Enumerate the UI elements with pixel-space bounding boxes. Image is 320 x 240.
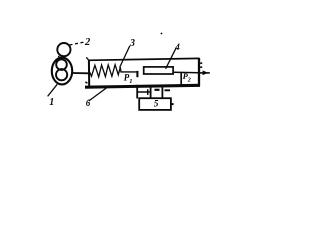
- svg-text:3: 3: [129, 38, 135, 49]
- output arrow line: [200, 72, 210, 74]
- spring 3 zigzag: [89, 65, 121, 77]
- battery wire left: [136, 85, 138, 99]
- cylinder 6 right wall: [198, 58, 200, 86]
- cylinder 6 left wall: [88, 60, 90, 87]
- battery box right tick: [171, 103, 173, 105]
- leader line to label 6: [89, 87, 109, 101]
- right jog dash: [155, 89, 160, 91]
- pump inner circle bottom: [56, 69, 67, 80]
- rod step notch: [136, 71, 138, 77]
- battery wire middle: [150, 87, 152, 98]
- leader line to label 2 (dashed): [70, 42, 84, 45]
- plus sign: [147, 89, 149, 95]
- svg-text:6: 6: [86, 98, 91, 108]
- potentiometer slider 4 (piston plate): [144, 67, 173, 74]
- cylinder 6 top wall: [88, 58, 200, 60]
- pump inner circle top: [56, 59, 67, 70]
- wiper contact: [180, 72, 182, 85]
- svg-text:5: 5: [154, 99, 159, 109]
- leader line to label 3: [120, 46, 130, 68]
- battery box 5: [139, 98, 171, 110]
- gauge circle 2 (small circle on top of pump): [57, 43, 70, 56]
- svg-text:4: 4: [174, 42, 180, 52]
- leader line to label 1: [48, 84, 58, 96]
- corner tick top-left: [86, 57, 88, 59]
- tick joining circle 2 and pump body: [58, 56, 60, 59]
- pump U1 outer ellipse (element 1): [52, 58, 72, 85]
- output arrowhead: [203, 70, 208, 75]
- svg-text:1: 1: [49, 97, 54, 108]
- piston rod right segment: [173, 71, 199, 74]
- leader line to label 4: [166, 48, 177, 69]
- svg-text:2: 2: [84, 37, 91, 48]
- minus sign: [165, 89, 171, 91]
- battery wire right: [161, 88, 163, 99]
- nub on left wall: [85, 82, 87, 83]
- piston rod: [120, 71, 138, 73]
- noise dot: [161, 33, 163, 35]
- cylinder 6 bottom wall (thick): [85, 85, 200, 87]
- ticks on right wall: [200, 63, 202, 67]
- wire from pump to cylinder left wall: [73, 72, 89, 74]
- battery left jog bar: [137, 91, 151, 93]
